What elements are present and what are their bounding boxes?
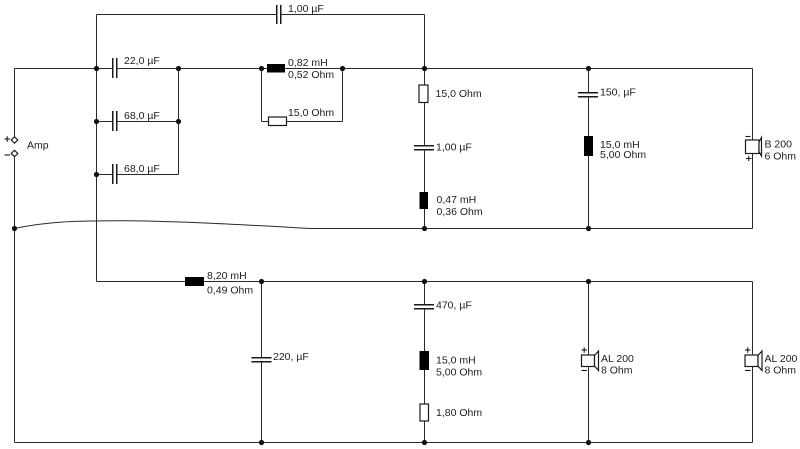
wire RCL branch x=424 upper xyxy=(424,282,426,305)
wire parallel-R bottom path xyxy=(262,121,343,123)
wire series branch upper (x=424) xyxy=(424,69,426,146)
svg-text:150, µF: 150, µF xyxy=(600,87,636,99)
svg-text:Amp: Amp xyxy=(27,140,49,152)
svg-text:6 Ohm: 6 Ohm xyxy=(765,151,797,163)
inductor L 15,0 mH (woofer shunt) xyxy=(420,351,483,379)
node tweeter return x=424 xyxy=(422,226,427,231)
node main rail x=96 xyxy=(94,66,99,71)
node main rail x=178 xyxy=(176,66,181,71)
node main rail x=588 xyxy=(586,66,591,71)
capacitor C 220, uF xyxy=(252,351,309,363)
capacitor C 1,00 uF (series) xyxy=(414,142,472,154)
capacitor C 68,0 uF (row 2) xyxy=(113,163,160,184)
svg-text:1,80 Ohm: 1,80 Ohm xyxy=(436,407,482,419)
resistor R 15,0 Ohm (series) xyxy=(419,85,482,103)
node 68uF row1 left xyxy=(94,119,99,124)
wire 68uF row 2 right xyxy=(117,174,179,176)
svg-text:8,20 mH: 8,20 mH xyxy=(207,270,247,282)
wire bypass drop to main rail xyxy=(424,15,426,69)
wire parallel-R left drop xyxy=(261,69,263,122)
node bottom rail x=261 xyxy=(259,440,264,445)
node tweeter return x=588 xyxy=(586,226,591,231)
wire bypass riser at x=96 xyxy=(96,15,98,69)
node main rail x=424 xyxy=(422,66,427,71)
wire top bypass rail left xyxy=(97,14,277,16)
svg-text:AL 200: AL 200 xyxy=(765,353,798,365)
wire RCL branch x=424 lower xyxy=(424,309,426,443)
inductor L 8,20 mH xyxy=(185,270,253,297)
wire tweeter return curve xyxy=(15,221,311,229)
wire AL200#1 vertical xyxy=(588,282,590,443)
speaker AL 200 #2 xyxy=(745,347,798,376)
wire shunt branch x=588 upper xyxy=(588,69,590,93)
wire cap-bank right riser xyxy=(178,69,180,175)
svg-text:1,00 µF: 1,00 µF xyxy=(288,3,324,15)
svg-text:0,36 Ohm: 0,36 Ohm xyxy=(437,206,483,218)
wire 220uF branch lower xyxy=(261,362,263,443)
svg-text:0,52 Ohm: 0,52 Ohm xyxy=(288,69,334,81)
wire 68uF row 2 left xyxy=(97,174,113,176)
capacitor C 22,0 uF xyxy=(113,55,160,78)
svg-text:8 Ohm: 8 Ohm xyxy=(601,365,633,377)
node main rail x=261 xyxy=(259,66,264,71)
inductor L 0,82 mH xyxy=(267,57,334,81)
wire shunt branch x=588 lower xyxy=(588,97,590,229)
svg-text:0,47 mH: 0,47 mH xyxy=(437,194,477,206)
wire right vertical upper (to B200) xyxy=(752,69,754,229)
capacitor C 470, uF xyxy=(414,300,472,312)
wire 68uF row 1 right xyxy=(117,121,179,123)
wire woofer feed rail xyxy=(97,281,753,283)
wire parallel-R right drop xyxy=(342,69,344,122)
svg-text:15,0 Ohm: 15,0 Ohm xyxy=(436,88,482,100)
svg-text:5,00 Ohm: 5,00 Ohm xyxy=(436,367,482,379)
svg-text:5,00 Ohm: 5,00 Ohm xyxy=(600,149,646,161)
node woofer rail x=424 xyxy=(422,279,427,284)
node main rail x=342 xyxy=(340,66,345,71)
svg-text:15,0 Ohm: 15,0 Ohm xyxy=(288,107,334,119)
wire tweeter return rail xyxy=(310,228,753,230)
capacitor C 68,0 uF (row 1) xyxy=(113,110,160,131)
node bottom rail x=424 xyxy=(422,440,427,445)
capacitor C 150, uF xyxy=(578,87,636,99)
inductor L 15,0 mH (tweeter shunt) xyxy=(584,136,646,161)
wire cap-bank left riser xyxy=(96,69,98,282)
node return curve start xyxy=(12,226,17,231)
node woofer rail x=588 xyxy=(586,279,591,284)
svg-text:470, µF: 470, µF xyxy=(436,300,472,312)
svg-text:15,0 mH: 15,0 mH xyxy=(436,355,476,367)
wire top bypass rail right xyxy=(281,14,425,16)
svg-text:68,0 µF: 68,0 µF xyxy=(124,110,160,122)
svg-text:0,82 mH: 0,82 mH xyxy=(288,57,328,69)
node 68uF row1 right xyxy=(176,119,181,124)
svg-text:1,00 µF: 1,00 µF xyxy=(436,142,472,154)
svg-text:68,0 µF: 68,0 µF xyxy=(124,163,160,175)
svg-text:0,49 Ohm: 0,49 Ohm xyxy=(207,285,253,297)
wire main rail from amp+ xyxy=(15,68,113,70)
speaker AL 200 #1 xyxy=(582,347,635,376)
resistor R 15,0 Ohm (parallel with 0,82 mH) xyxy=(269,107,335,126)
capacitor C 1,00 uF (top bypass) xyxy=(277,3,324,24)
terminal Amp + xyxy=(5,136,18,143)
wire right vertical lower (to AL200#2) xyxy=(752,282,754,443)
svg-text:220, µF: 220, µF xyxy=(273,351,309,363)
wire main rail after 22uF xyxy=(117,68,753,70)
speaker B 200 xyxy=(746,137,797,163)
wire bottom return rail xyxy=(15,442,753,444)
inductor L 0,47 mH xyxy=(420,192,483,218)
svg-text:B 200: B 200 xyxy=(765,139,793,151)
node woofer rail x=261 xyxy=(259,279,264,284)
wire amp+ lead xyxy=(14,69,16,138)
wire amp- lead down left side xyxy=(14,157,16,443)
wire 68uF row 1 left xyxy=(97,121,113,123)
wire 220uF branch upper xyxy=(261,282,263,358)
node bottom rail x=588 xyxy=(586,440,591,445)
svg-text:AL 200: AL 200 xyxy=(601,353,634,365)
wire series branch lower (x=424) xyxy=(424,150,426,229)
terminal Amp - xyxy=(5,150,18,156)
svg-text:8 Ohm: 8 Ohm xyxy=(765,365,797,377)
node 68uF row2 left xyxy=(94,172,99,177)
resistor R 1,80 Ohm xyxy=(420,404,482,421)
svg-text:22,0 µF: 22,0 µF xyxy=(124,55,160,67)
